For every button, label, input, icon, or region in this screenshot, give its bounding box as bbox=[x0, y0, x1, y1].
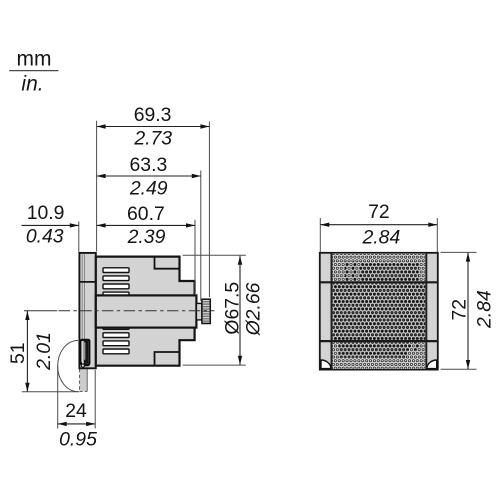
extension lines, side view bbox=[22, 121, 246, 429]
lower section divider bbox=[320, 340, 438, 342]
dimension labels, side view bbox=[7, 104, 265, 450]
rear housing outline bbox=[320, 253, 438, 370]
svg-text:2.01: 2.01 bbox=[33, 332, 55, 371]
housing step line bottom-right bbox=[155, 352, 180, 366]
dimension line 60.7 bbox=[97, 223, 195, 227]
extension line knob front face bbox=[200, 171, 202, 301]
knob neck bbox=[196, 303, 202, 320]
extension line bezel front face bbox=[78, 222, 80, 253]
housing body bbox=[96, 257, 195, 366]
housing step line top-right bbox=[155, 257, 180, 269]
extension line rear right edge bbox=[436, 218, 438, 252]
svg-text:0.95: 0.95 bbox=[59, 428, 97, 450]
svg-text:69.3: 69.3 bbox=[134, 104, 172, 126]
svg-text:63.3: 63.3 bbox=[130, 154, 168, 176]
svg-text:10.9: 10.9 bbox=[27, 202, 65, 224]
dimension line 51 bbox=[25, 311, 29, 392]
right side rail edge bbox=[425, 253, 427, 369]
upper section divider bbox=[320, 281, 438, 283]
dimension line 72 height bbox=[466, 253, 470, 369]
extension line rear top edge bbox=[441, 251, 477, 253]
svg-text:2.73: 2.73 bbox=[133, 128, 172, 150]
svg-text:Ø67.5: Ø67.5 bbox=[222, 282, 244, 335]
clamp swing arc bbox=[58, 340, 78, 391]
extension line clamp screw bottom bbox=[22, 391, 79, 393]
dimension leader 10.9 bbox=[22, 223, 79, 227]
extension line panel face bbox=[96, 121, 98, 252]
extension line knob end bbox=[208, 122, 210, 298]
svg-text:mm: mm bbox=[17, 48, 52, 71]
svg-text:0.43: 0.43 bbox=[26, 225, 64, 247]
axis centerline bbox=[24, 310, 215, 312]
perforated back panel bbox=[332, 254, 427, 369]
dimension lines, side view bbox=[22, 124, 243, 426]
dimension line 24 bbox=[58, 422, 95, 426]
svg-text:2.39: 2.39 bbox=[127, 226, 166, 248]
extension line body bottom diameter bbox=[183, 364, 246, 366]
front bezel bbox=[79, 253, 95, 368]
svg-text:2.49: 2.49 bbox=[129, 177, 168, 199]
svg-text:2.84: 2.84 bbox=[362, 226, 401, 248]
units legend mm over in. bbox=[9, 48, 58, 96]
left side rail edge bbox=[331, 253, 333, 369]
dimension lines, rear view bbox=[320, 223, 470, 370]
svg-text:24: 24 bbox=[65, 400, 87, 422]
bottom-right corner gusset bbox=[427, 360, 437, 369]
svg-text:72: 72 bbox=[449, 299, 471, 321]
svg-text:51: 51 bbox=[7, 342, 29, 364]
svg-text:60.7: 60.7 bbox=[127, 203, 165, 225]
extension line rear left edge bbox=[319, 218, 321, 252]
dimension line 63.3 bbox=[97, 174, 201, 178]
extension line clamp swing right bbox=[94, 370, 96, 429]
extension line rear housing face bbox=[194, 220, 196, 295]
extension lines, rear view bbox=[320, 218, 476, 369]
bottom-left corner gusset bbox=[321, 360, 331, 369]
clamp screw (phantom) bbox=[80, 369, 88, 392]
extension line clamp swing left bbox=[57, 366, 59, 429]
knurled adjustment knob bbox=[202, 299, 210, 323]
svg-text:in.: in. bbox=[21, 73, 43, 96]
svg-text:72: 72 bbox=[368, 201, 390, 223]
dimension labels, rear view bbox=[362, 201, 496, 329]
dimension line 69.3 bbox=[97, 124, 210, 128]
center barrel bbox=[96, 295, 197, 327]
dimension line 72 width bbox=[320, 223, 437, 227]
panel clamp lever bbox=[80, 340, 89, 367]
dimension line diameter 67.5 bbox=[238, 256, 242, 365]
svg-text:Ø2.66: Ø2.66 bbox=[243, 282, 265, 336]
extension line rear bottom edge bbox=[441, 368, 477, 370]
extension line body top diameter bbox=[183, 254, 246, 256]
vent slots bbox=[103, 268, 129, 354]
svg-text:2.84: 2.84 bbox=[474, 290, 496, 329]
